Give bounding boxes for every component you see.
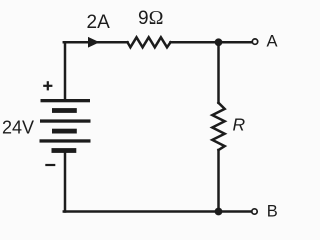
svg-text:24V: 24V [2,118,34,138]
svg-text:B: B [267,203,278,221]
current arrow 2A [88,37,100,48]
junction node B [215,208,223,216]
wire top rail left segment [64,41,128,44]
resistor 9Ω zigzag [128,37,171,47]
wire top-left vertical (battery + to top rail) [64,42,67,100]
svg-text:R: R [233,115,246,135]
wire right vertical upper (node A junction to resistor R) [217,42,220,103]
plus sign of battery [43,81,52,90]
wire top rail right segment (resistor to node A) [171,41,253,44]
battery V 24V [40,99,91,153]
terminal B circle [252,209,257,214]
minus sign of battery [45,164,55,166]
resistor R zigzag [212,103,224,150]
wire right vertical lower (resistor R to node B) [217,150,220,212]
svg-text:2A: 2A [87,12,111,33]
svg-text:9Ω: 9Ω [138,7,163,29]
svg-text:A: A [267,33,278,51]
junction node A [215,38,223,46]
terminal A circle [252,39,257,44]
wire bottom rail [64,210,252,213]
wire bottom-left vertical (battery - to bottom rail) [64,151,67,212]
